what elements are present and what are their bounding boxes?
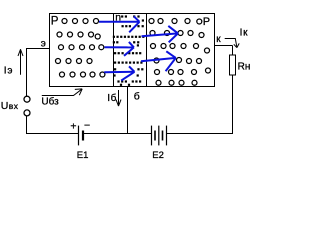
bottom wire from E2 to resistor [167, 133, 234, 135]
wire from base junction to battery E2 [127, 133, 152, 135]
wire from lower input terminal down [26, 116, 28, 134]
svg-text:Iэ: Iэ [4, 65, 13, 76]
hole flow arrow B (emitter into base, middle) [105, 46, 134, 48]
svg-text:э: э [41, 38, 46, 49]
svg-text:E1: E1 [77, 150, 89, 161]
battery E2 plate 4 (short) [162, 131, 164, 141]
hole flow arrow D (base into collector, lower) [141, 58, 176, 61]
svg-text:б: б [134, 91, 140, 103]
input terminal circle top [24, 96, 30, 102]
wire from resistor down to bottom rail [232, 75, 234, 134]
battery E1 negative plate (short) [82, 131, 84, 141]
base-collector junction line [146, 13, 148, 87]
electrons (dots) in n base region [113, 15, 145, 85]
base wire vertical [127, 86, 129, 134]
bottom wire from input to battery E1 [26, 133, 79, 135]
emitter-base junction line [113, 13, 115, 87]
svg-text:к: к [216, 34, 221, 45]
collector wire down to load resistor [232, 46, 234, 56]
battery E2 plate 1 (long) [151, 126, 153, 146]
battery E2 plate 3 (long) [158, 126, 160, 146]
holes (circles) in emitter p-region [56, 19, 105, 78]
battery E2 plate 2 (short) [154, 131, 156, 141]
current arrow Iб (pointing down) [118, 90, 120, 106]
holes (circles) in collector p-region [149, 19, 211, 86]
load resistor Rн body [230, 55, 236, 75]
semiconductor body outline [50, 14, 215, 87]
svg-text:Uбз: Uбз [41, 96, 59, 108]
input terminal circle bottom [24, 110, 30, 116]
battery E1 positive plate (long) [78, 126, 80, 146]
base-emitter voltage arrow Uбэ [42, 89, 82, 95]
svg-text:Rн: Rн [238, 61, 251, 72]
svg-text:Iб: Iб [107, 92, 117, 104]
current arrow Iк (bent, pointing down) [225, 39, 237, 47]
hole flow arrow C (base into collector, upper) [142, 33, 179, 36]
svg-text:P: P [51, 16, 59, 28]
current arrow Iэ (pointing up) [20, 49, 22, 75]
hole flow arrow E (emitter into base, bottom) [104, 71, 134, 74]
wire from E1 to base junction [83, 133, 128, 135]
collector wire horizontal [215, 45, 233, 47]
svg-text:+: + [70, 120, 76, 132]
emitter wire horizontal [27, 48, 51, 50]
svg-text:−: − [84, 119, 90, 131]
battery E2 plate 5 (long) [166, 126, 168, 146]
svg-text:E2: E2 [152, 150, 164, 161]
hole flow arrow A (emitter into base, top) [99, 21, 140, 23]
emitter wire vertical down to input terminal [26, 48, 28, 96]
svg-text:P: P [203, 16, 210, 28]
svg-text:Iк: Iк [240, 28, 249, 39]
svg-text:Uвх: Uвх [1, 100, 19, 112]
